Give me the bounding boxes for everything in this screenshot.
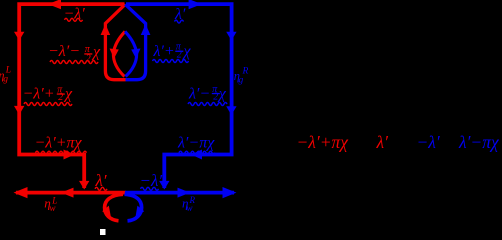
svg-text:χ: χ bbox=[91, 44, 101, 61]
svg-text:w: w bbox=[187, 203, 193, 213]
label lambda'+pi/2 chi (blue) bbox=[153, 42, 192, 63]
label -lambda' (blue, above bottom wire) bbox=[140, 171, 163, 190]
label eta^R_w (blue, below bottom wire) bbox=[182, 195, 196, 213]
outer arch loop, blue right half bbox=[125, 4, 145, 79]
arrow on red left wire pointing down (upper) bbox=[14, 32, 24, 41]
svg-text:w: w bbox=[50, 203, 56, 213]
arrow on red mid wire pointing right bbox=[64, 150, 75, 160]
svg-text:χ: χ bbox=[63, 85, 73, 102]
svg-text:χ: χ bbox=[182, 43, 192, 60]
label -lambda'-pi/2 chi (red) bbox=[48, 43, 101, 65]
svg-text:−λ′: −λ′ bbox=[417, 132, 441, 152]
label -lambda'+pi/2 chi (red) bbox=[23, 84, 74, 105]
arrow on blue bottom loop pointing down-left bbox=[136, 206, 145, 217]
arrow on red vesica pointing down bbox=[110, 49, 119, 59]
wire: blue right contour (top horizontal, right vertical, mid horizontal, drop) bbox=[126, 4, 232, 188]
arrow on red drop pointing down bbox=[79, 181, 89, 190]
arrow on red top wire pointing left bbox=[48, 0, 61, 9]
arrow on blue bottom wire pointing right bbox=[178, 188, 191, 198]
arrow on blue mid wire pointing left bbox=[191, 150, 202, 160]
arrow on red bottom loop pointing down-right bbox=[102, 206, 111, 217]
arrow on blue drop pointing down bbox=[159, 181, 169, 190]
svg-text:−λ′−: −λ′− bbox=[48, 43, 80, 60]
arrow on red left wire pointing down (lower) bbox=[14, 106, 24, 115]
label eta^R_g (blue, right edge) bbox=[234, 67, 249, 86]
inner vesica loop, red left half bbox=[113, 32, 125, 77]
arrow on blue vesica pointing down bbox=[131, 49, 140, 59]
svg-text:−λ′+: −λ′+ bbox=[23, 85, 55, 102]
svg-text:−λ′+πχ: −λ′+πχ bbox=[297, 132, 350, 152]
label lambda' (red, above bottom wire) bbox=[95, 171, 108, 190]
wire: red left contour (top horizontal, left vertical, mid horizontal, drop) bbox=[19, 4, 124, 188]
wire: blue bottom horizontal (wire axis, right half) bbox=[125, 191, 234, 195]
label lambda' (blue, top) bbox=[174, 6, 186, 23]
arrow on blue top wire pointing right bbox=[189, 0, 202, 9]
label -lambda' (red, top) bbox=[64, 5, 86, 22]
white cursor mark at bottom bbox=[100, 229, 106, 235]
arrow on red arch pointing up bbox=[101, 24, 111, 35]
svg-text:λ′+: λ′+ bbox=[153, 43, 175, 60]
svg-text:2: 2 bbox=[177, 49, 182, 60]
label eta^L_g (red, left edge) bbox=[0, 66, 11, 85]
svg-text:χ: χ bbox=[217, 85, 227, 102]
svg-text:λ′−πχ: λ′−πχ bbox=[177, 135, 215, 152]
arrow on blue arch pointing up bbox=[141, 24, 151, 35]
arrow at blue bottom wire right end pointing right bbox=[223, 187, 237, 198]
bottom loop, red left half bbox=[105, 194, 123, 221]
arrow on blue right wire pointing down (lower) bbox=[226, 106, 236, 115]
svg-text:2: 2 bbox=[58, 92, 63, 103]
svg-text:g: g bbox=[239, 76, 244, 86]
label lambda'-pi/2 chi (blue) bbox=[188, 84, 227, 106]
svg-text:λ′: λ′ bbox=[376, 132, 390, 152]
svg-text:λ′−: λ′− bbox=[188, 85, 210, 102]
arrow on blue right wire pointing down (upper) bbox=[226, 32, 236, 41]
arrow at red bottom wire left end pointing left bbox=[14, 187, 28, 198]
label eta^L_w (red, below bottom wire) bbox=[44, 196, 57, 214]
label lambda'-pi chi (blue) bbox=[177, 135, 215, 155]
wire: red bottom horizontal (wire axis, left half) bbox=[16, 191, 126, 195]
arrow on red bottom wire pointing left bbox=[61, 188, 74, 198]
bottom loop, blue right half bbox=[125, 194, 142, 221]
svg-text:g: g bbox=[3, 75, 8, 85]
inner vesica loop, blue right half bbox=[125, 32, 137, 77]
label -lambda'+pi chi (red) bbox=[35, 135, 87, 155]
svg-text:2: 2 bbox=[213, 92, 218, 103]
svg-text:−λ′+πχ: −λ′+πχ bbox=[35, 135, 83, 152]
outer arch loop, red left half bbox=[105, 4, 125, 79]
svg-text:λ′−πχ: λ′−πχ bbox=[458, 132, 500, 152]
